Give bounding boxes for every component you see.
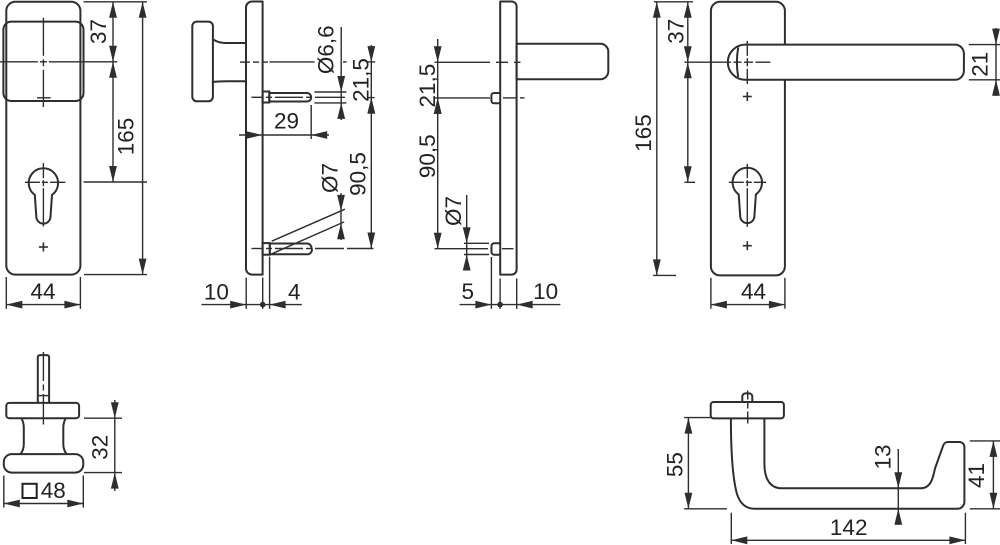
svg-text:Ø7: Ø7 [318, 163, 343, 193]
lower screw boss F3 [492, 243, 501, 254]
lower screw rod F2 [270, 244, 312, 255]
dimension 165 F4 [653, 2, 661, 276]
svg-text:44: 44 [30, 279, 55, 304]
extension lines rod dia F2 [315, 92, 347, 103]
svg-text:44: 44 [741, 279, 766, 304]
dimension dia 7 F2 [337, 193, 345, 240]
label 41 F6 [964, 463, 989, 488]
svg-text:48: 48 [41, 478, 66, 503]
dimension 90,5 F2 [367, 98, 375, 249]
dimension 37 F1 [109, 2, 117, 62]
extension line cylinder axis F4 [685, 181, 696, 183]
extension line rod end F2 [310, 105, 312, 139]
screw position mark lower + F4 [743, 241, 752, 250]
label 5 F3 [461, 279, 474, 304]
dimension 21,5 F2 [367, 45, 375, 114]
upper screw centerline F2 [251, 96, 345, 98]
svg-text:29: 29 [274, 109, 299, 134]
label 4 F2 [288, 279, 301, 304]
svg-text:41: 41 [964, 463, 989, 488]
svg-text:165: 165 [631, 114, 656, 152]
extension lines square F5 [4, 476, 84, 508]
dimension 10 F2 [202, 301, 302, 309]
extension lines height F5 [84, 418, 122, 472]
knob spindle hidden tick F1 [37, 97, 51, 99]
svg-text:90,5: 90,5 [346, 152, 371, 196]
knob cap F5 [4, 454, 84, 473]
svg-text:37: 37 [86, 19, 111, 44]
lower screw centerline F2 [252, 248, 374, 250]
label 55 F6 [663, 452, 688, 477]
extension lines 142 F6 [731, 513, 965, 544]
svg-text:21: 21 [968, 52, 993, 77]
lever neck inner contour F4 [737, 48, 738, 78]
svg-text:21,5: 21,5 [349, 58, 374, 102]
label 21,5 F3 [415, 64, 440, 108]
lever handle front F4 [728, 45, 964, 80]
lever axis horizontal centerline F4 [685, 61, 771, 63]
dimension 5-10 F3 [460, 301, 561, 309]
extension lines 41 F6 [970, 441, 1000, 509]
dimension 165 F1 [139, 2, 147, 275]
dimension dia 6,6 F2 [337, 27, 345, 120]
dimension 142 F6 [731, 536, 965, 544]
extension line knob axis F2 (to 21,5 dim) [270, 61, 376, 63]
extension lines bottom F3 [491, 257, 516, 309]
knob square front F1 [3, 22, 83, 101]
label dia 6,6 F2 [313, 25, 338, 74]
extension line cylinder F1 [84, 181, 148, 183]
svg-text:90,5: 90,5 [415, 134, 440, 178]
label 37 F4 [664, 19, 689, 44]
label 21,5 F2 [349, 58, 374, 102]
label dia 7 F3 [441, 196, 466, 226]
extension line top F1 [84, 1, 148, 3]
extension line bottom F4 [653, 274, 676, 276]
dimension 29 F2 [239, 131, 329, 139]
dimension 37 F4 [684, 2, 692, 62]
dimension square48 F5 [4, 500, 84, 508]
knob centerline horizontal F1 (extends to dim line) [0, 61, 117, 63]
lever spindle stub F6 [742, 393, 752, 402]
plate F1 (knob short plate, front view 44x165) [6, 2, 80, 275]
dimension 13 F6 [894, 449, 902, 525]
lever handle side F3 [517, 44, 609, 80]
knob rose F5 [6, 403, 79, 418]
cylinder centerline horizontal F1 [25, 181, 65, 183]
dimension centre distance F4 (unlabeled) [684, 62, 692, 182]
svg-text:37: 37 [664, 19, 689, 44]
upper screw rod F2 [269, 93, 311, 102]
extension lines boss dia F3 [464, 243, 489, 254]
label 90,5 F3 [415, 134, 440, 178]
plate F3 side view [500, 2, 516, 275]
knob centerline vertical F1 [42, 18, 44, 107]
knob centerline F2 [240, 61, 268, 63]
dimension 21,5 F3 [434, 39, 442, 114]
label 29 F2 [274, 109, 299, 134]
knob cap side F2 [192, 22, 213, 102]
knob neck F5 [21, 418, 67, 454]
svg-text:142: 142 [830, 515, 868, 540]
label 37 F1 [86, 19, 111, 44]
label square48 F5 [23, 478, 66, 503]
extension lines width F4 [711, 278, 785, 309]
extension lines 55 F6 [684, 418, 727, 509]
dimension 21 F4 [992, 28, 1000, 96]
euro profile cylinder hole F4 [733, 168, 762, 223]
screw position mark + F1 [39, 243, 48, 252]
extension lines bottom F2 [246, 257, 269, 309]
label 44 F4 [741, 279, 766, 304]
plate F4 (lever short plate front view) [711, 2, 785, 276]
lower screw boss F2 [263, 243, 270, 255]
lower screw axis F3 [435, 248, 514, 250]
euro profile cylinder hole F1 [29, 168, 58, 223]
svg-text:Ø6,6: Ø6,6 [313, 25, 338, 74]
cylinder centerline horizontal F4 [729, 181, 766, 183]
dimension 41 F6 [990, 441, 998, 509]
svg-text:55: 55 [663, 452, 688, 477]
leader diagonals dia 7 F2 [271, 209, 345, 254]
svg-text:4: 4 [288, 279, 301, 304]
tick upper screw axis F2 [368, 97, 375, 99]
cylinder centerline vertical F4 [746, 164, 748, 227]
dimension centre distance F1 (unlabeled) [109, 62, 117, 182]
svg-text:165: 165 [114, 118, 139, 156]
label 44 F1 [30, 279, 55, 304]
lever rose top view F6 [711, 402, 784, 418]
label 13 F6 [871, 444, 896, 469]
dimension 44 F4 [711, 301, 785, 309]
extension line top F4 [654, 1, 693, 3]
extension line bottom F1 [84, 274, 147, 276]
label 90,5 F2 [346, 152, 371, 196]
lever handle top view outline F6 [731, 418, 965, 509]
label dia 7 F2 [318, 163, 343, 193]
knob spindle tick F5 [38, 395, 49, 397]
svg-text:5: 5 [461, 279, 474, 304]
svg-text:13: 13 [871, 444, 896, 469]
lever axis vertical centerline F4 [746, 41, 748, 84]
extension lines handle dia F4 [969, 45, 1000, 80]
extension lines width F1 [6, 277, 80, 309]
label 32 F5 [87, 435, 112, 460]
upper screw boss F3 [491, 93, 500, 103]
knob spindle centerline F5 [42, 352, 44, 425]
upper screw axis F3 [435, 97, 525, 99]
svg-text:10: 10 [533, 279, 558, 304]
cylinder centerline vertical F1 [42, 163, 44, 227]
svg-text:10: 10 [204, 279, 229, 304]
dimension dia 7 F3 [463, 195, 471, 271]
plate F2 side view [246, 2, 263, 275]
label 10 F3 [533, 279, 558, 304]
svg-text:Ø7: Ø7 [441, 196, 466, 226]
dimension 90,5 F3 [434, 98, 442, 249]
svg-text:32: 32 [87, 435, 112, 460]
dimension 32 F5 [111, 400, 119, 491]
label 165 F4 [631, 114, 656, 152]
upper screw boss F2 [263, 92, 270, 103]
label 21 F4 [968, 52, 993, 77]
dimension 44 F1 [6, 301, 80, 309]
knob spindle F5 [38, 355, 49, 403]
label 165 F1 [114, 118, 139, 156]
dimension 55 F6 [685, 418, 693, 509]
lever axis extension+centerline F3 [435, 61, 521, 63]
screw position mark upper + F4 [743, 92, 752, 101]
label 10 F2 [204, 279, 229, 304]
svg-text:21,5: 21,5 [415, 64, 440, 108]
knob neck F2 [213, 39, 247, 82]
label 142 F6 [830, 515, 868, 540]
lever spindle centerline F6 [747, 391, 749, 424]
